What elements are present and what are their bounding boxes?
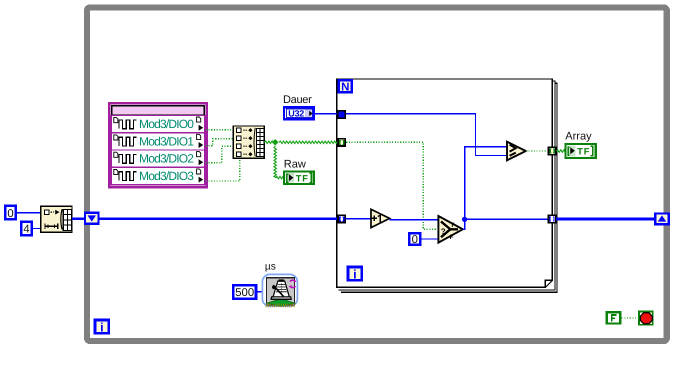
wire left shift register to for loop tunnel [100, 217, 339, 220]
svg-text:Mod3/DIO3: Mod3/DIO3 [139, 169, 194, 183]
for loop folded corner [545, 280, 554, 289]
wire greater-equal output [526, 150, 549, 152]
wire channel row 2 to build array [206, 146, 234, 162]
left shift register [85, 213, 99, 224]
initialize array node [41, 206, 72, 232]
for loop stacked frame 3 [341, 83, 557, 292]
wait microseconds VI icon [262, 274, 297, 307]
numeric constant 0 [5, 206, 16, 220]
wire Dauer to for loop tunnel [314, 113, 341, 115]
Dauer U32 control terminal [284, 107, 314, 119]
svg-text:TF: TF [296, 173, 309, 183]
right shift register [655, 214, 669, 225]
for loop count terminal N [339, 80, 352, 93]
select node [438, 216, 462, 243]
tunnel bool array out (auto-index) [549, 147, 556, 155]
wire tunnel to Array indicator (bool array) [556, 150, 565, 152]
svg-text:Raw: Raw [284, 158, 306, 170]
for loop main frame [337, 79, 552, 287]
svg-text:Array: Array [565, 131, 592, 143]
wire channel row 3 to build array [206, 158, 240, 182]
svg-text:?: ? [441, 227, 446, 236]
numeric constant 4 [21, 222, 32, 236]
junction dot [462, 217, 467, 222]
tunnel main array in [338, 215, 345, 222]
numeric constant 500 [233, 285, 256, 299]
svg-text:µs: µs [265, 261, 276, 272]
wire 0 to select f input [420, 238, 438, 240]
svg-text:N: N [341, 82, 349, 94]
wire Dauer inside loop [346, 114, 507, 156]
while loop border [87, 8, 667, 342]
wire tunnel to right shift register [556, 218, 668, 221]
junction diamond [272, 139, 279, 146]
svg-text:i: i [353, 267, 356, 281]
svg-text:T: T [450, 222, 454, 229]
numeric constant 0 (select f input) [409, 233, 420, 246]
svg-text:4: 4 [23, 224, 29, 236]
svg-text:F: F [450, 234, 454, 241]
wire select output [463, 147, 507, 230]
tunnel main array out [548, 215, 555, 222]
stop terminal [639, 311, 653, 324]
svg-text:Mod3/DIO1: Mod3/DIO1 [139, 134, 194, 148]
svg-text:0: 0 [7, 208, 13, 220]
svg-text:U32: U32 [288, 108, 304, 118]
increment node +1 [371, 209, 390, 227]
wire F to stop terminal [622, 317, 639, 319]
while loop iteration terminal i [95, 320, 109, 334]
wire 500 to wait [256, 291, 264, 293]
wire channel row 1 to build array [206, 139, 234, 146]
svg-text:Mod3/DIO2: Mod3/DIO2 [139, 152, 194, 166]
for loop stacked frame 2 [339, 81, 555, 290]
wire initialize array to left shift register [72, 217, 86, 220]
svg-text:0: 0 [412, 234, 418, 246]
tunnel Dauer (solid) [338, 111, 346, 119]
wire select output to tunnel [465, 218, 549, 220]
svg-text:TF: TF [577, 147, 590, 157]
wire bool inside loop to select [346, 142, 437, 229]
wire 0 to initialize array [16, 212, 41, 214]
wire increment to select t input [390, 219, 439, 221]
DAQmx channel array constant Mod3/DIO0..3 [109, 103, 207, 187]
for loop iteration terminal i [348, 267, 362, 281]
Array boolean array indicator [566, 144, 596, 158]
Raw boolean array indicator [284, 171, 314, 184]
boolean constant F [607, 312, 620, 323]
svg-text:500: 500 [235, 287, 254, 299]
wire tunnel to increment [345, 218, 371, 220]
svg-text:Mod3/DIO0: Mod3/DIO0 [139, 117, 194, 131]
svg-text:Dauer: Dauer [283, 94, 312, 106]
wire junction down to Raw indicator (bool array) [274, 146, 276, 178]
wire build array output (bool array) [264, 141, 272, 143]
svg-text:i: i [100, 320, 103, 334]
greater or equal node [507, 142, 526, 161]
wire 4 to initialize array [32, 227, 41, 229]
wire channel row 0 to build array [206, 129, 234, 131]
tunnel bool array in (auto-index) [338, 139, 345, 146]
build array node [233, 126, 264, 158]
wire junction to for loop tunnel (bool array) [279, 141, 338, 143]
